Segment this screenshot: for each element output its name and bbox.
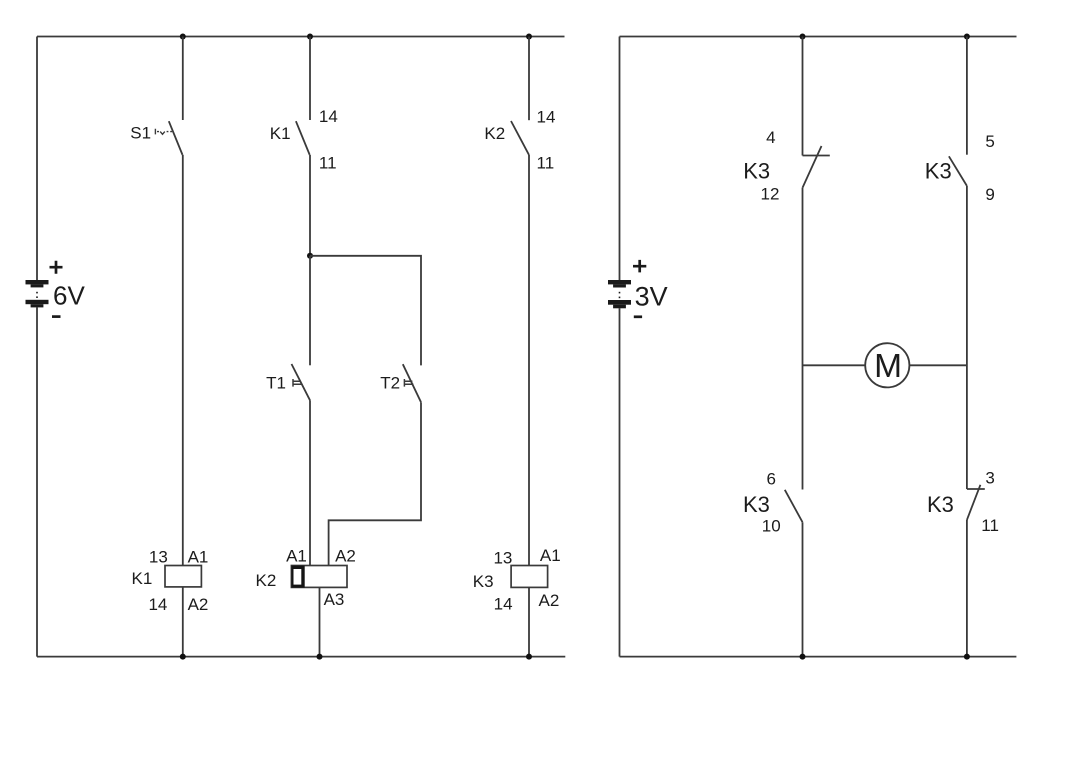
svg-text:4: 4 bbox=[766, 128, 775, 147]
wire: branch A lower bbox=[802, 522, 804, 656]
svg-text:11: 11 bbox=[981, 516, 999, 535]
node: bottom rail junction S1 branch bbox=[180, 654, 186, 660]
wire: left circuit top rail bbox=[37, 36, 565, 38]
switch S1 (NO pushbutton) blade bbox=[169, 121, 183, 155]
node: right top rail junction branch A bbox=[800, 34, 806, 40]
svg-text:K2: K2 bbox=[484, 124, 505, 143]
wire: K2 contact branch upper bbox=[528, 37, 530, 121]
svg-text:14: 14 bbox=[537, 108, 556, 127]
svg-text:K1: K1 bbox=[270, 124, 291, 143]
svg-text:S1: S1 bbox=[130, 123, 151, 142]
svg-text:14: 14 bbox=[319, 107, 338, 126]
svg-text:T2: T2 bbox=[380, 373, 400, 392]
contact T1 (NO) blade bbox=[292, 364, 311, 400]
contact K3 3-11 (NC) seat bbox=[967, 488, 985, 490]
wire: branch A upper bbox=[802, 37, 804, 156]
wire: K2 contact to K3 coil bbox=[528, 155, 530, 566]
switch S1 manual actuator bbox=[155, 129, 172, 135]
wire: left circuit bottom rail bbox=[37, 656, 565, 658]
svg-text:A2: A2 bbox=[335, 546, 356, 565]
wire: right circuit bottom rail bbox=[620, 656, 1017, 658]
svg-text:K2: K2 bbox=[256, 571, 277, 590]
wire: branch B upper bbox=[966, 37, 968, 155]
svg-text:10: 10 bbox=[762, 516, 781, 535]
wire: right circuit left vertical (battery branch lower) bbox=[619, 308, 621, 656]
svg-text:K3: K3 bbox=[927, 492, 954, 517]
node: junction of T1/T2 parallel branches bbox=[307, 253, 313, 259]
node: top rail junction S1 branch bbox=[180, 34, 186, 40]
wire: K1 coil to bottom rail bbox=[182, 587, 184, 657]
svg-text:K3: K3 bbox=[925, 159, 952, 184]
wire: T2 lower with jog to K2 coil A2 bbox=[329, 402, 421, 565]
svg-text:9: 9 bbox=[985, 185, 994, 204]
relay coil K2 latching element bbox=[291, 566, 304, 588]
relay coil K3 bbox=[511, 566, 547, 588]
wire: motor feed left bbox=[803, 364, 866, 366]
wire: T1 to K2 coil A1 bbox=[309, 400, 311, 565]
wire: K2 coil A3 to bottom rail bbox=[319, 587, 321, 656]
battery B2 plus sign bbox=[633, 260, 646, 273]
contact K3 4-12 (NC) seat bbox=[803, 155, 830, 157]
node: top rail junction K1-contact branch bbox=[307, 34, 313, 40]
svg-text:11: 11 bbox=[319, 154, 337, 173]
battery B2 3V bbox=[608, 280, 631, 308]
svg-text:5: 5 bbox=[985, 132, 994, 151]
svg-text:T1: T1 bbox=[266, 373, 286, 392]
svg-text:11: 11 bbox=[537, 154, 555, 173]
relay coil K1 bbox=[165, 566, 201, 587]
svg-text:12: 12 bbox=[761, 185, 780, 204]
svg-text:3V: 3V bbox=[635, 281, 668, 311]
svg-text:14: 14 bbox=[494, 594, 513, 613]
node: right top rail junction branch B bbox=[964, 34, 970, 40]
svg-text:A1: A1 bbox=[188, 548, 209, 567]
svg-text:K3: K3 bbox=[743, 158, 770, 183]
node: bottom rail junction K3 coil branch bbox=[526, 654, 532, 660]
wire: branch A middle (through motor tap) bbox=[802, 188, 804, 490]
node: bottom rail junction K2 coil branch bbox=[317, 654, 323, 660]
wire: left circuit left vertical (battery branch lower) bbox=[36, 307, 38, 656]
battery B1 plus sign bbox=[50, 261, 63, 274]
wire: S1 branch to K1 coil bbox=[182, 155, 184, 566]
wire: S1 branch upper bbox=[182, 37, 184, 121]
svg-text:A2: A2 bbox=[188, 595, 209, 614]
wire: K1 contact to junction node bbox=[309, 155, 311, 256]
svg-text:K3: K3 bbox=[743, 492, 770, 517]
wire: left circuit left vertical (battery branch upper) bbox=[36, 37, 38, 281]
contact T1 actuator bbox=[293, 379, 302, 387]
wire: motor feed right bbox=[909, 364, 967, 366]
node: right bottom rail junction branch A bbox=[800, 654, 806, 660]
svg-text:13: 13 bbox=[149, 548, 168, 567]
svg-text:M: M bbox=[874, 348, 902, 385]
svg-text:A1: A1 bbox=[540, 546, 561, 565]
svg-text:6: 6 bbox=[766, 469, 775, 488]
contact K1 (NO) blade bbox=[296, 121, 310, 155]
battery B1 6V bbox=[26, 280, 49, 307]
relay coil K2 bbox=[291, 566, 347, 588]
battery B1 minus sign bbox=[52, 315, 61, 318]
contact K3 3-11 (NC) blade bbox=[967, 485, 981, 520]
contact T2 (NO) blade bbox=[403, 364, 421, 402]
svg-text:14: 14 bbox=[148, 595, 167, 614]
motor M1 circle bbox=[865, 343, 909, 387]
wire: right circuit top rail bbox=[620, 36, 1017, 38]
wire: K1 contact branch upper bbox=[309, 37, 311, 121]
contact T2 actuator bbox=[404, 379, 413, 387]
svg-text:6V: 6V bbox=[53, 281, 85, 311]
svg-text:3: 3 bbox=[985, 468, 994, 487]
node: right bottom rail junction branch B bbox=[964, 654, 970, 660]
svg-text:K3: K3 bbox=[473, 572, 494, 591]
contact K2 (NO) blade bbox=[511, 121, 529, 155]
wire: right circuit left vertical (battery branch upper) bbox=[619, 37, 621, 281]
wire: branch B lower bbox=[966, 520, 968, 657]
contact K3 5-9 (NO) blade bbox=[949, 156, 967, 186]
wire: T1 branch upper bbox=[309, 256, 311, 365]
wire: branch B middle (through motor tap) bbox=[966, 186, 968, 489]
node: top rail junction K2-contact branch bbox=[526, 34, 532, 40]
svg-text:A3: A3 bbox=[324, 590, 345, 609]
contact K3 6-10 (NO) blade bbox=[785, 490, 803, 522]
svg-text:13: 13 bbox=[493, 549, 512, 568]
svg-text:A2: A2 bbox=[539, 591, 560, 610]
battery B2 minus sign bbox=[634, 315, 642, 318]
wire: K3 coil to bottom rail bbox=[528, 587, 530, 656]
svg-text:A1: A1 bbox=[286, 546, 307, 565]
wire: jog to T2 branch bbox=[310, 256, 421, 366]
svg-text:K1: K1 bbox=[132, 569, 153, 588]
contact K3 4-12 (NC) blade bbox=[803, 146, 822, 188]
